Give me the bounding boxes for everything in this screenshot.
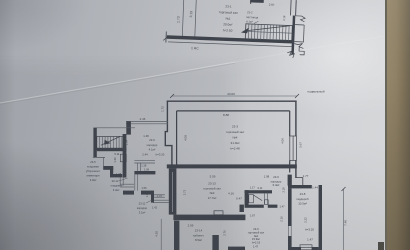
svg-text:1.77: 1.77 xyxy=(303,174,309,178)
svg-text:4.06: 4.06 xyxy=(281,138,285,144)
svg-text:h=3.20: h=3.20 xyxy=(156,153,165,157)
svg-text:17.7м²: 17.7м² xyxy=(208,196,217,200)
svg-text:1.30: 1.30 xyxy=(113,157,117,163)
svg-text:2.18: 2.18 xyxy=(282,187,286,193)
svg-text:1.67: 1.67 xyxy=(250,213,256,217)
svg-text:1.47: 1.47 xyxy=(279,205,285,209)
svg-text:5.11: 5.11 xyxy=(114,152,120,156)
svg-text:торговый зал: торговый зал xyxy=(219,10,238,15)
svg-text:8.5м²: 8.5м² xyxy=(195,238,202,242)
svg-text:23-11: 23-11 xyxy=(139,202,146,206)
svg-text:2.16: 2.16 xyxy=(280,216,284,222)
svg-text:2.46: 2.46 xyxy=(140,117,146,121)
svg-text:№2: №2 xyxy=(254,234,259,238)
svg-text:1.48: 1.48 xyxy=(116,172,122,176)
svg-text:1.68: 1.68 xyxy=(145,191,149,197)
svg-text:1.17: 1.17 xyxy=(250,186,256,190)
svg-text:1.47: 1.47 xyxy=(307,238,313,242)
svg-text:2.99: 2.99 xyxy=(188,224,194,228)
svg-text:1.44: 1.44 xyxy=(312,186,318,190)
svg-text:торговый зал: торговый зал xyxy=(226,130,245,134)
svg-text:10.5м²: 10.5м² xyxy=(298,202,307,206)
svg-text:2.18: 2.18 xyxy=(282,15,286,21)
svg-text:4.09: 4.09 xyxy=(184,135,188,141)
svg-text:№4: №4 xyxy=(233,136,238,140)
svg-text:3.0м²: 3.0м² xyxy=(90,178,97,182)
svg-text:№3: №3 xyxy=(210,191,215,195)
svg-text:23-8: 23-8 xyxy=(300,192,306,196)
svg-text:3.19: 3.19 xyxy=(189,11,193,18)
svg-text:3.1м²: 3.1м² xyxy=(139,211,146,215)
svg-text:2.97: 2.97 xyxy=(269,3,275,7)
svg-text:15.9м²: 15.9м² xyxy=(252,237,260,241)
svg-text:1.73: 1.73 xyxy=(176,16,180,23)
svg-text:4.1м²: 4.1м² xyxy=(246,20,253,24)
svg-text:4.16: 4.16 xyxy=(228,192,234,196)
svg-text:1.72: 1.72 xyxy=(161,106,165,112)
svg-text:2.44: 2.44 xyxy=(142,153,148,157)
svg-text:1.06: 1.06 xyxy=(144,168,150,172)
svg-text:коридор: коридор xyxy=(147,143,158,147)
svg-text:23-3: 23-3 xyxy=(232,125,238,129)
svg-text:торговый зал: торговый зал xyxy=(248,230,265,234)
svg-text:h=2.50: h=2.50 xyxy=(223,28,233,32)
svg-text:уборочного: уборочного xyxy=(86,169,101,173)
svg-text:2.71: 2.71 xyxy=(183,189,187,195)
svg-text:№1: №1 xyxy=(225,16,230,20)
svg-text:31.0м²: 31.0м² xyxy=(231,141,240,145)
svg-text:1.38: 1.38 xyxy=(141,164,147,168)
svg-text:20.0м²: 20.0м² xyxy=(223,22,232,26)
svg-text:3.67: 3.67 xyxy=(299,142,303,148)
svg-text:23-5: 23-5 xyxy=(90,160,96,164)
svg-text:7.48: 7.48 xyxy=(344,220,348,226)
svg-text:кладовая: кладовая xyxy=(87,166,99,169)
svg-text:23-6: 23-6 xyxy=(149,138,155,142)
svg-text:кабинет: кабинет xyxy=(193,233,204,237)
svg-text:8.88: 8.88 xyxy=(223,113,229,117)
svg-text:кладовая: кладовая xyxy=(111,185,123,188)
svg-text:коридор: коридор xyxy=(137,207,148,210)
svg-text:1.07: 1.07 xyxy=(157,194,163,198)
svg-text:инвентаря: инвентаря xyxy=(87,175,101,178)
svg-text:23-14: 23-14 xyxy=(195,229,203,233)
svg-text:23-2: 23-2 xyxy=(247,10,253,14)
svg-text:2.76: 2.76 xyxy=(223,230,227,236)
svg-text:23-13: 23-13 xyxy=(208,182,216,186)
svg-text:23-9: 23-9 xyxy=(253,227,259,231)
svg-text:0.47: 0.47 xyxy=(236,197,242,201)
svg-text:торговый зал: торговый зал xyxy=(203,186,221,190)
svg-text:3.4м²: 3.4м² xyxy=(113,188,120,192)
svg-text:1.48: 1.48 xyxy=(143,134,149,138)
svg-text:43.00: 43.00 xyxy=(227,92,235,96)
svg-text:1 HC: 1 HC xyxy=(191,46,199,50)
svg-text:23-12: 23-12 xyxy=(112,179,119,183)
svg-text:4.30: 4.30 xyxy=(155,231,159,237)
svg-text:подвальный: подвальный xyxy=(307,90,324,94)
svg-text:h=2.48: h=2.48 xyxy=(230,147,240,151)
svg-text:23-1: 23-1 xyxy=(225,4,232,8)
svg-text:4.1м²: 4.1м² xyxy=(149,148,156,152)
svg-text:1.04: 1.04 xyxy=(124,139,128,145)
svg-text:6.4м²: 6.4м² xyxy=(273,183,280,187)
svg-text:1.55: 1.55 xyxy=(141,186,147,190)
svg-text:h=2.19: h=2.19 xyxy=(252,241,261,245)
svg-text:h=3.20: h=3.20 xyxy=(305,228,314,232)
svg-text:1.42: 1.42 xyxy=(152,206,158,210)
svg-text:5.59: 5.59 xyxy=(210,175,216,179)
svg-text:2.22: 2.22 xyxy=(304,217,308,223)
svg-text:0.11: 0.11 xyxy=(258,186,263,190)
svg-text:1.98: 1.98 xyxy=(264,175,270,179)
svg-text:1.47: 1.47 xyxy=(253,244,259,248)
svg-text:гардероб: гардероб xyxy=(296,197,309,201)
svg-text:23-6: 23-6 xyxy=(273,175,279,179)
